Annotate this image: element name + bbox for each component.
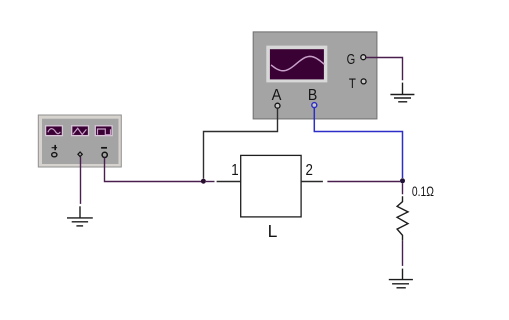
terminal B [312, 103, 317, 108]
ground GND2 (function generator) [67, 206, 93, 226]
function generator inner panel [42, 119, 119, 164]
terminal A [275, 103, 280, 108]
svg-text:B: B [308, 87, 317, 104]
svg-text:A: A [272, 87, 282, 104]
wire A channel (black): scope A down, left, down to node 1 [204, 108, 278, 178]
wire G to ground (maroon) [366, 58, 403, 81]
terminal T [361, 79, 366, 84]
inductor L (subcircuit box) [241, 155, 301, 217]
oscilloscope screen [270, 49, 324, 79]
wire node 1 to pin 1 (maroon, short) [206, 181, 215, 183]
node 1 junction dot [201, 179, 206, 184]
node 2 junction dot [400, 178, 405, 183]
ground GND3 (resistor) [389, 269, 413, 288]
sine trace on screen [272, 56, 325, 70]
pin 2 stub of L [301, 181, 323, 183]
resistor R1 0.1 ohm (zigzag) [397, 196, 408, 241]
button triangle-wave [72, 126, 89, 136]
svg-text:T: T [349, 75, 356, 91]
minus sign (- terminal label) [101, 147, 107, 149]
oscilloscope U1 body [253, 32, 377, 119]
plus sign (+ terminal label) [52, 145, 58, 150]
button sine-wave [46, 126, 63, 136]
svg-text:0.1Ω: 0.1Ω [412, 184, 434, 199]
ground GND1 (scope) [390, 83, 414, 102]
terminal G [361, 55, 366, 60]
wire - terminal down and right to node 1 (maroon) [105, 158, 202, 182]
svg-text:1: 1 [231, 162, 238, 179]
button square-wave [95, 126, 112, 136]
svg-text:G: G [347, 52, 356, 68]
svg-text:2: 2 [306, 162, 313, 179]
wire pin 2 to node 2 (maroon) [327, 181, 400, 183]
wire resistor to ground (maroon) [402, 241, 404, 266]
svg-text:L: L [268, 221, 278, 241]
wire node 2 down to resistor (maroon) [402, 183, 404, 194]
function generator XFG1 outer frame [38, 115, 121, 167]
terminal + [52, 153, 57, 157]
oscilloscope screen bezel [266, 46, 327, 83]
terminal common (diamond) [78, 152, 82, 157]
wire B channel (blue): scope B down, right, down to node 2 [314, 108, 402, 178]
pin 1 stub of L [217, 181, 241, 183]
terminal - [102, 152, 107, 157]
wire common terminal to ground (maroon) [80, 157, 82, 204]
